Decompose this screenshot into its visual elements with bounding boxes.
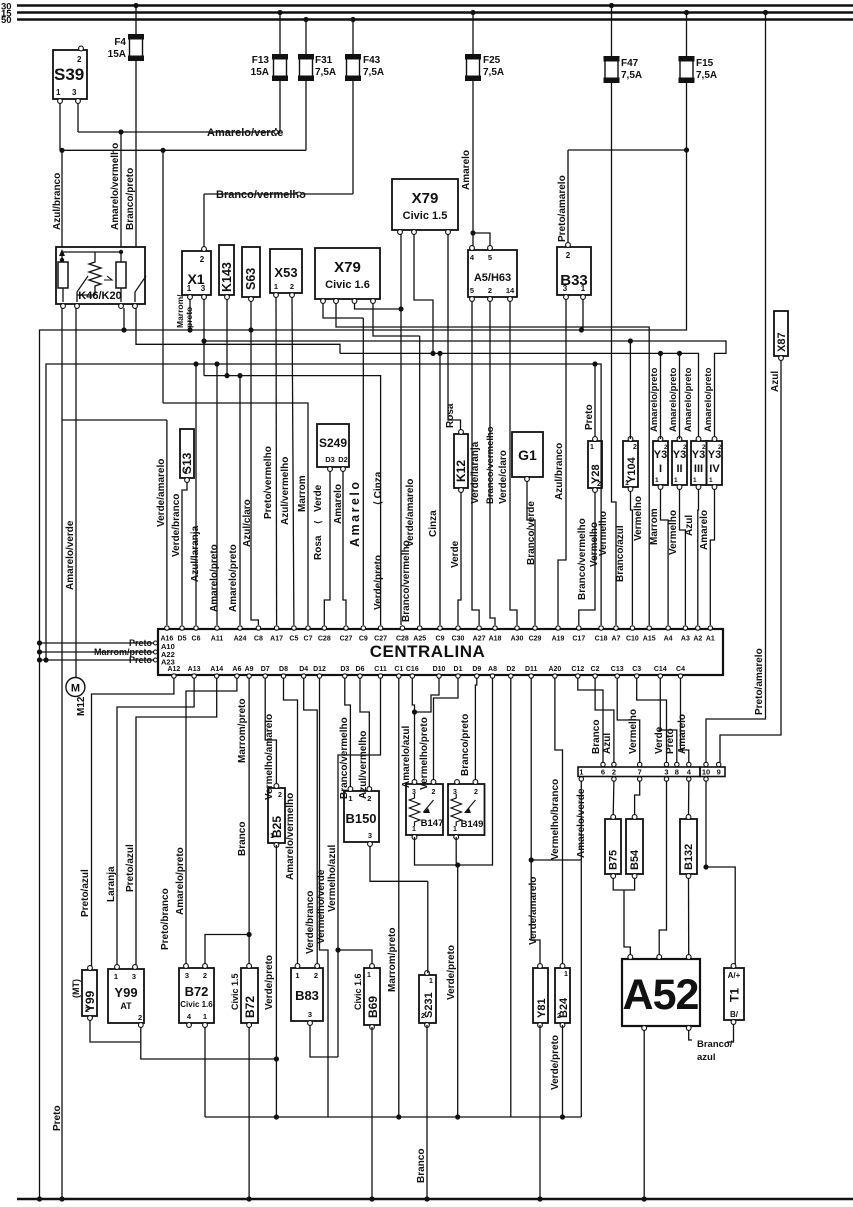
svg-text:C9: C9 <box>436 636 445 643</box>
wire X1 pin3 down <box>203 299 205 376</box>
resistor B75 <box>605 819 621 874</box>
svg-text:1: 1 <box>114 972 118 981</box>
wire C6 Azul/laranja <box>195 364 197 625</box>
switch S13 <box>180 429 194 478</box>
wire B24 pin2 <box>562 1025 564 1117</box>
svg-text:3: 3 <box>185 971 189 980</box>
svg-text:8: 8 <box>675 768 679 777</box>
wire S39 pin1 Azul/branco <box>59 103 61 150</box>
svg-text:K143: K143 <box>220 262 234 292</box>
svg-text:B/: B/ <box>730 1010 739 1019</box>
wire X79-1.6 pin4 to A25 <box>373 303 420 336</box>
svg-text:preto: preto <box>184 307 194 328</box>
svg-text:S39: S39 <box>54 65 84 84</box>
wire C9 Amarelo <box>362 318 364 625</box>
CENTRALINA bottom pins <box>172 674 176 678</box>
svg-text:A17: A17 <box>270 636 283 643</box>
svg-text:A/+: A/+ <box>728 971 741 980</box>
injector Y3 IV <box>707 441 723 485</box>
wire D10 to C16 junction <box>415 678 440 712</box>
svg-text:Branco/vermelho: Branco/vermelho <box>485 426 496 504</box>
svg-text:15A: 15A <box>251 67 269 78</box>
svg-text:⟨ Cinza: ⟨ Cinza <box>373 471 384 505</box>
svg-text:2: 2 <box>612 768 616 777</box>
svg-text:7,5A: 7,5A <box>483 67 504 78</box>
svg-text:D10: D10 <box>433 666 446 673</box>
svg-text:Vermelho/preto: Vermelho/preto <box>419 717 430 790</box>
svg-text:B83: B83 <box>295 988 319 1003</box>
wire Amarelo F25 branch <box>470 230 475 235</box>
wire C9-2 Cinza <box>439 353 441 625</box>
switch S231 <box>419 975 436 1023</box>
svg-text:3: 3 <box>308 1010 312 1019</box>
wire A5/H63 pin5 to A27 <box>472 301 479 625</box>
svg-text:F43: F43 <box>363 55 381 66</box>
svg-text:B147: B147 <box>421 818 444 829</box>
svg-text:7,5A: 7,5A <box>621 70 642 81</box>
svg-text:1: 1 <box>429 978 433 985</box>
wire B72 pin1 to ground rail <box>204 1027 206 1117</box>
module A52 <box>622 959 700 1026</box>
svg-text:2: 2 <box>203 971 207 980</box>
svg-text:A3: A3 <box>681 636 690 643</box>
svg-text:X53: X53 <box>274 265 297 280</box>
resistor B54 <box>626 819 643 874</box>
svg-text:Preto: Preto <box>665 728 676 754</box>
relay coil right <box>116 262 126 288</box>
labels Amarelo/preto injectors <box>660 353 662 439</box>
svg-text:2: 2 <box>367 794 371 803</box>
wire D4 to B83 pin2 <box>304 678 318 966</box>
valve Y104 <box>623 441 638 487</box>
svg-text:CENTRALINA: CENTRALINA <box>370 642 486 661</box>
wire H375 distribution <box>204 376 381 625</box>
resistor B25 <box>268 788 285 843</box>
svg-text:A24: A24 <box>234 636 247 643</box>
wire A5/H63 pin2 to A18 <box>490 301 495 625</box>
svg-text:Marrom/preto: Marrom/preto <box>387 928 398 992</box>
wire relay pin3 to H330 <box>123 308 125 330</box>
svg-text:Branco: Branco <box>237 822 248 856</box>
connector X87 <box>774 311 788 356</box>
svg-text:Preto/amarelo: Preto/amarelo <box>754 648 765 715</box>
svg-text:2: 2 <box>314 971 318 980</box>
svg-text:Branco/vermelho: Branco/vermelho <box>577 518 588 600</box>
svg-text:A13: A13 <box>188 666 201 673</box>
svg-text:Verde: Verde <box>313 484 324 512</box>
wire H150 from F31 <box>62 149 306 151</box>
svg-text:Preto: Preto <box>52 1105 63 1131</box>
ground rail y1117 <box>205 1116 581 1118</box>
wire S249 D2 to C27 Amarelo <box>343 471 346 625</box>
svg-text:⟨: ⟨ <box>313 520 323 524</box>
svg-text:Cinza: Cinza <box>428 510 439 537</box>
wire B33 pin3 to A19 <box>558 299 566 625</box>
svg-text:Verde/amarelo: Verde/amarelo <box>405 479 416 547</box>
wire X53 pin2 to C5 <box>292 297 294 625</box>
svg-text:F13: F13 <box>252 55 270 66</box>
wire X79-1.5 pin3 to K12 <box>448 234 461 432</box>
svg-text:Amarelo: Amarelo <box>461 150 472 190</box>
svg-text:2: 2 <box>290 282 294 291</box>
wire Preto/amarelo right vertical <box>706 13 766 764</box>
wire D5 to S13 <box>182 482 187 625</box>
svg-text:1: 1 <box>367 972 371 979</box>
svg-text:B132: B132 <box>683 844 695 870</box>
svg-text:1: 1 <box>453 826 457 833</box>
svg-text:Amarelo/preto: Amarelo/preto <box>649 367 660 432</box>
wire X79-1.5 pin2 to L_B <box>414 234 433 353</box>
wire strip pin4 to B132 <box>688 781 690 816</box>
svg-text:C2: C2 <box>591 666 600 673</box>
svg-text:2: 2 <box>664 444 668 451</box>
svg-text:Preto: Preto <box>129 655 153 665</box>
connector B72 Civic 1.5 <box>241 968 258 1023</box>
svg-text:Civic 1.6: Civic 1.6 <box>180 1000 213 1009</box>
wire Preto/amarelo B33 pin2 <box>567 150 569 243</box>
ignition coil T1 <box>724 968 744 1020</box>
svg-text:2: 2 <box>488 286 492 295</box>
svg-text:Verde/preto: Verde/preto <box>446 945 457 1000</box>
wire C1 Marrom/preto <box>398 678 400 1117</box>
svg-text:1: 1 <box>274 282 278 291</box>
svg-text:Azul: Azul <box>602 733 613 754</box>
svg-text:K12: K12 <box>454 460 468 482</box>
connector X79 Civic 1.6 <box>315 248 380 299</box>
svg-text:Amarelo/verde: Amarelo/verde <box>576 788 587 858</box>
wire S231 pin2 to bus <box>426 1025 428 1199</box>
fuse F15 7,5A <box>684 10 689 15</box>
svg-text:azul: azul <box>697 1052 715 1063</box>
svg-text:C3: C3 <box>632 666 641 673</box>
svg-text:A4: A4 <box>664 636 673 643</box>
svg-text:C4: C4 <box>676 666 685 673</box>
wire X53 pin1 to A17 <box>275 297 278 625</box>
connector X53 <box>270 249 302 293</box>
wire A12 to Y99 MT <box>92 678 174 966</box>
svg-text:Azul: Azul <box>684 515 695 536</box>
connector X1 <box>182 251 211 295</box>
wire strip pin1 to ground rail <box>580 781 582 1117</box>
svg-text:C17: C17 <box>572 636 585 643</box>
svg-text:2: 2 <box>597 481 601 488</box>
fuse F31 7,5A <box>303 17 308 22</box>
svg-text:S63: S63 <box>244 268 258 290</box>
svg-text:Marrom/preto: Marrom/preto <box>237 699 248 763</box>
wire strip pin7 to B54 <box>635 781 640 816</box>
svg-text:Branco: Branco <box>591 720 602 754</box>
svg-text:1: 1 <box>674 477 678 484</box>
svg-text:Branco: Branco <box>416 1149 427 1183</box>
svg-text:B69: B69 <box>366 996 380 1018</box>
wire Amarelo/verde horizontal <box>78 131 280 133</box>
svg-text:2: 2 <box>278 792 282 799</box>
wire A14 to Y99 AT pin3 <box>136 678 217 966</box>
wire A24 Amarelo/preto <box>239 376 241 625</box>
connector S39 <box>53 50 87 99</box>
svg-text:C18: C18 <box>595 636 608 643</box>
svg-text:7,5A: 7,5A <box>315 67 336 78</box>
svg-text:Amarelo/preto: Amarelo/preto <box>683 367 694 432</box>
connector strip 10-9 <box>700 767 725 777</box>
svg-text:7,5A: 7,5A <box>696 70 717 81</box>
svg-text:I: I <box>659 463 662 475</box>
svg-text:A52: A52 <box>623 971 699 1019</box>
generator G1 <box>512 432 543 477</box>
svg-text:Rosa: Rosa <box>313 535 324 560</box>
svg-text:Azul/branco: Azul/branco <box>554 443 565 500</box>
connector B150 <box>344 791 379 842</box>
svg-text:Branco/vermelho: Branco/vermelho <box>401 540 412 622</box>
wire S249 D3 to C28 Rosa-Verde <box>324 471 330 625</box>
wire A20 to B24 pin1 <box>555 678 563 966</box>
wires Y99 bottoms <box>90 1020 141 1042</box>
svg-text:Civic 1.5: Civic 1.5 <box>403 210 448 222</box>
svg-text:F25: F25 <box>483 55 501 66</box>
svg-text:A15: A15 <box>643 636 656 643</box>
svg-text:C6: C6 <box>192 636 201 643</box>
wire B72cv15 to bus <box>248 1027 250 1199</box>
svg-text:Preto/vermelho: Preto/vermelho <box>263 446 274 519</box>
wire Y104 pin2 up <box>629 341 631 439</box>
svg-text:Branco/vermelho: Branco/vermelho <box>216 189 306 201</box>
svg-text:T1: T1 <box>728 988 742 1002</box>
svg-text:A27: A27 <box>473 636 486 643</box>
svg-text:Amarelo/vermelho: Amarelo/vermelho <box>285 793 296 880</box>
svg-text:Branco/: Branco/ <box>697 1039 733 1050</box>
wire A16 Verde/amarelo <box>166 420 168 625</box>
svg-text:F47: F47 <box>621 58 639 69</box>
wire D8 to B83 pin1 <box>284 678 298 966</box>
wire B149 pin1 <box>455 837 457 863</box>
fuse F43 7,5A <box>350 17 355 22</box>
svg-text:1: 1 <box>579 768 583 777</box>
svg-text:2: 2 <box>432 789 436 796</box>
resistor B149 <box>448 784 485 835</box>
svg-text:Azul/branco: Azul/branco <box>52 173 63 230</box>
wire H364 distribution <box>46 364 601 660</box>
wire relay pin2 to M12 <box>75 308 77 678</box>
svg-text:1: 1 <box>709 477 713 484</box>
svg-text:3: 3 <box>72 88 77 97</box>
svg-text:Preto: Preto <box>584 404 595 430</box>
wire Y104 pin1 to C10 <box>631 491 633 625</box>
svg-text:Branco/preto: Branco/preto <box>460 714 471 776</box>
svg-text:Preto/azul: Preto/azul <box>80 869 91 917</box>
svg-text:Marrom: Marrom <box>297 475 308 512</box>
svg-text:Marrom: Marrom <box>649 508 660 545</box>
svg-text:3: 3 <box>664 768 668 777</box>
svg-text:1: 1 <box>581 284 586 293</box>
svg-text:B150: B150 <box>345 811 376 826</box>
connector B83 <box>291 968 323 1021</box>
connector B33 <box>557 247 591 295</box>
fuse F13 15A <box>277 10 282 15</box>
svg-text:Amarelo/vermelho: Amarelo/vermelho <box>110 143 121 230</box>
wire B25 pin1 down Verde/preto <box>275 845 277 1117</box>
svg-text:Amarelo/preto: Amarelo/preto <box>209 544 220 612</box>
svg-text:IV: IV <box>709 463 720 475</box>
wire H420 to A16 <box>62 419 167 421</box>
svg-text:A8: A8 <box>488 666 497 673</box>
wire T1 bottom <box>727 1024 734 1042</box>
wires B75 B54 join to A52 <box>613 878 634 890</box>
connector strip 1-4 <box>578 767 700 777</box>
svg-text:Laranja: Laranja <box>106 866 117 902</box>
CENTRALINA top pins <box>165 626 169 630</box>
wire D1 to B147 pin2 <box>434 678 459 782</box>
svg-text:5: 5 <box>470 286 474 295</box>
svg-text:A19: A19 <box>552 636 565 643</box>
relay bottom pins <box>61 304 66 309</box>
svg-text:A14: A14 <box>210 666 223 673</box>
svg-text:C5: C5 <box>289 636 298 643</box>
wire B69 to bus <box>371 1027 373 1199</box>
svg-text:1: 1 <box>564 971 568 978</box>
svg-text:C7: C7 <box>304 636 313 643</box>
svg-text:C12: C12 <box>571 666 584 673</box>
relay switch left <box>76 292 78 302</box>
svg-text:D8: D8 <box>279 666 288 673</box>
svg-text:Verde/amarelo: Verde/amarelo <box>156 459 167 527</box>
svg-text:Preto/azul: Preto/azul <box>125 844 136 892</box>
svg-text:3: 3 <box>132 972 136 981</box>
svg-text:7: 7 <box>638 768 642 777</box>
wire junction down Verde/preto <box>457 865 459 1117</box>
svg-text:Rosa: Rosa <box>445 403 456 428</box>
svg-text:K46/K20: K46/K20 <box>78 290 121 302</box>
svg-text:1: 1 <box>412 826 416 833</box>
svg-text:A9: A9 <box>245 666 254 673</box>
wire F47 to A7 Vermelho <box>612 82 617 625</box>
svg-text:Amarelo/verde: Amarelo/verde <box>207 127 283 139</box>
wire Amarelo/vermelho relay coil <box>118 129 123 134</box>
wire S231 pin1 up <box>427 881 429 973</box>
wire K143 down <box>226 299 228 376</box>
svg-text:1: 1 <box>590 444 594 451</box>
svg-text:Vermelho: Vermelho <box>633 496 644 541</box>
svg-text:C30: C30 <box>452 636 465 643</box>
svg-text:D11: D11 <box>525 666 538 673</box>
svg-text:AT: AT <box>120 1001 132 1011</box>
injector Y3 II <box>672 441 687 485</box>
svg-text:Amarelo: Amarelo <box>333 484 344 524</box>
svg-text:Vermelho/branco: Vermelho/branco <box>550 779 561 860</box>
svg-text:A20: A20 <box>548 666 561 673</box>
svg-text:Azul/claro: Azul/claro <box>242 499 253 547</box>
svg-text:S249: S249 <box>319 436 347 450</box>
svg-text:G1: G1 <box>518 447 537 463</box>
bus line 15 <box>17 11 853 13</box>
svg-text:50: 50 <box>1 15 12 26</box>
svg-text:Azul: Azul <box>770 371 781 392</box>
svg-text:D9: D9 <box>472 666 481 673</box>
resistor B132 <box>680 819 697 874</box>
svg-text:Amarelo/preto: Amarelo/preto <box>228 544 239 612</box>
svg-text:1: 1 <box>348 794 352 803</box>
wire branch to B72 pin2 <box>205 935 249 967</box>
svg-text:C16: C16 <box>406 666 419 673</box>
svg-text:Azul/laranja: Azul/laranja <box>190 525 201 582</box>
svg-text:Y104: Y104 <box>626 456 638 483</box>
svg-text:A11: A11 <box>211 636 224 643</box>
svg-text:2: 2 <box>200 255 205 264</box>
svg-text:Branco/preto: Branco/preto <box>125 168 136 230</box>
connector S63 <box>242 247 260 297</box>
svg-text:Y81: Y81 <box>536 998 548 1018</box>
svg-text:D3: D3 <box>340 666 349 673</box>
wire A13 to Y99 AT pin1 <box>117 678 194 966</box>
valve Y28 <box>588 441 602 488</box>
relay K12 <box>454 434 468 488</box>
svg-text:Amarelo/verde: Amarelo/verde <box>65 520 76 590</box>
connector S249 <box>317 424 349 467</box>
svg-text:B54: B54 <box>629 849 641 870</box>
svg-text:Branco/verde: Branco/verde <box>526 501 537 565</box>
wire K12 to C30 <box>458 492 461 625</box>
svg-text:B72: B72 <box>185 984 209 999</box>
svg-text:Amarelo/preto: Amarelo/preto <box>175 847 186 915</box>
wire G1 to C29 <box>527 481 535 625</box>
svg-text:Verde/laranja: Verde/laranja <box>470 441 481 504</box>
connector A5/H63 <box>468 250 517 297</box>
svg-text:B149: B149 <box>461 819 484 830</box>
wire strip pin10 to T1 and A52 <box>705 781 707 867</box>
wire D11 to Y81 <box>531 678 540 966</box>
svg-text:9: 9 <box>717 768 721 777</box>
wire A6 to B72 pin3 <box>186 678 237 966</box>
wire A25 up <box>419 336 421 625</box>
svg-text:10: 10 <box>702 768 710 777</box>
svg-text:2: 2 <box>557 1013 561 1020</box>
bus line 50 <box>17 18 853 20</box>
svg-text:A5/H63: A5/H63 <box>474 272 511 284</box>
svg-text:Verde/preto: Verde/preto <box>550 1035 561 1090</box>
wire L_B to Y3 solenoids <box>340 353 699 439</box>
wires C12 C2 C13 C3 C14 C4 to strip <box>578 678 603 763</box>
svg-text:Branco/vermelho: Branco/vermelho <box>339 717 350 799</box>
svg-text:F31: F31 <box>315 55 333 66</box>
connector X79 Civic 1.5 <box>392 179 458 230</box>
svg-text:Verde/branco: Verde/branco <box>171 494 182 557</box>
svg-text:2: 2 <box>718 444 722 451</box>
wire B83 pin3 <box>310 1025 338 1057</box>
wire A52 left bottom to bus <box>643 1030 645 1199</box>
svg-text:X79: X79 <box>334 259 361 276</box>
svg-text:Amarelo: Amarelo <box>677 714 688 754</box>
svg-text:Verde/preto: Verde/preto <box>373 555 384 610</box>
svg-text:1: 1 <box>295 971 299 980</box>
CENTRALINA left pins A10 A22 A23 <box>40 642 156 644</box>
wire X1 pin1 Marrom/preto <box>189 299 191 330</box>
svg-text:A25: A25 <box>413 636 426 643</box>
wire S39 pin3 Amarelo/verde <box>77 103 79 132</box>
svg-text:Verde/claro: Verde/claro <box>498 450 509 504</box>
svg-text:(MT): (MT) <box>71 979 81 998</box>
relay resistor zigzag <box>89 258 101 290</box>
svg-text:B75: B75 <box>608 850 620 870</box>
svg-text:Amarelo/preto: Amarelo/preto <box>703 367 714 432</box>
svg-text:3: 3 <box>368 831 372 840</box>
wire D3 to B150 pin1 <box>345 678 351 791</box>
wire A8 down to junction <box>458 678 493 865</box>
svg-text:Civic 1.6: Civic 1.6 <box>325 279 370 291</box>
svg-text:C10: C10 <box>626 636 639 643</box>
wire strip pin3 to A52 <box>659 781 666 955</box>
wire X79-1.6 pin2 H327 <box>336 303 649 625</box>
svg-text:Vermelho/verde: Vermelho/verde <box>316 869 327 944</box>
injector Y3 I <box>653 441 668 485</box>
